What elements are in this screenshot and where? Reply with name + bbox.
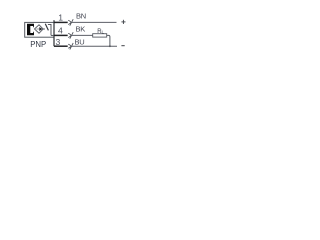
wire BU pin stub — [54, 45, 68, 47]
wire BK to load — [72, 34, 93, 36]
connector symbol BN — [68, 20, 71, 24]
lead from diamond to switch — [43, 28, 45, 30]
plus terminal — [121, 21, 125, 23]
load resistor RL — [93, 34, 107, 37]
BK stub inside box — [51, 34, 54, 36]
switch output path to BK terminal — [48, 24, 51, 35]
optical aperture bracket (sensor symbol) — [27, 24, 34, 35]
connector terminal bar — [53, 20, 55, 46]
svg-text:BK: BK — [76, 24, 86, 33]
svg-text:1: 1 — [58, 13, 63, 23]
wire BN pin stub — [54, 21, 68, 23]
svg-text:4: 4 — [58, 26, 63, 36]
svg-text:L: L — [102, 30, 105, 35]
svg-text:BU: BU — [75, 37, 85, 46]
connector symbol BU — [68, 44, 71, 48]
svg-text:BN: BN — [76, 12, 86, 21]
proximity sensing diamond — [35, 25, 44, 33]
connector symbol BK — [68, 33, 71, 37]
wire BU — [72, 45, 118, 47]
wire BN — [72, 21, 117, 23]
sensor body box U1 — [25, 22, 54, 37]
arrow head inside diamond — [39, 27, 42, 31]
arrow shaft inside diamond — [36, 28, 39, 30]
wire BK pin stub — [54, 34, 68, 36]
junction node — [109, 45, 111, 47]
svg-text:PNP: PNP — [30, 40, 46, 49]
wire from RL, drop to BU line — [107, 35, 110, 46]
svg-text:3: 3 — [56, 37, 61, 47]
switch blade — [45, 24, 48, 31]
minus terminal — [121, 45, 124, 47]
